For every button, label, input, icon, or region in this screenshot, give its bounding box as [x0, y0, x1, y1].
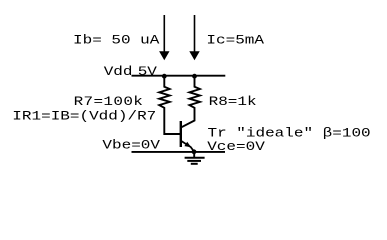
svg-text:Vdd: Vdd — [104, 65, 133, 79]
svg-text:Ic=5mA: Ic=5mA — [206, 33, 264, 47]
svg-text:Ib= 50 uA: Ib= 50 uA — [73, 33, 160, 47]
svg-text:Vbe=0V: Vbe=0V — [102, 139, 160, 153]
svg-text:Tr "ideale" β=100: Tr "ideale" β=100 — [208, 126, 371, 140]
svg-text:IR1=IB=(Vdd)/R7: IR1=IB=(Vdd)/R7 — [12, 110, 156, 124]
svg-text:5V: 5V — [138, 65, 157, 79]
svg-text:R7=100k: R7=100k — [74, 95, 144, 109]
svg-text:Vce=0V: Vce=0V — [207, 140, 265, 154]
svg-text:R8=1k: R8=1k — [209, 95, 257, 109]
